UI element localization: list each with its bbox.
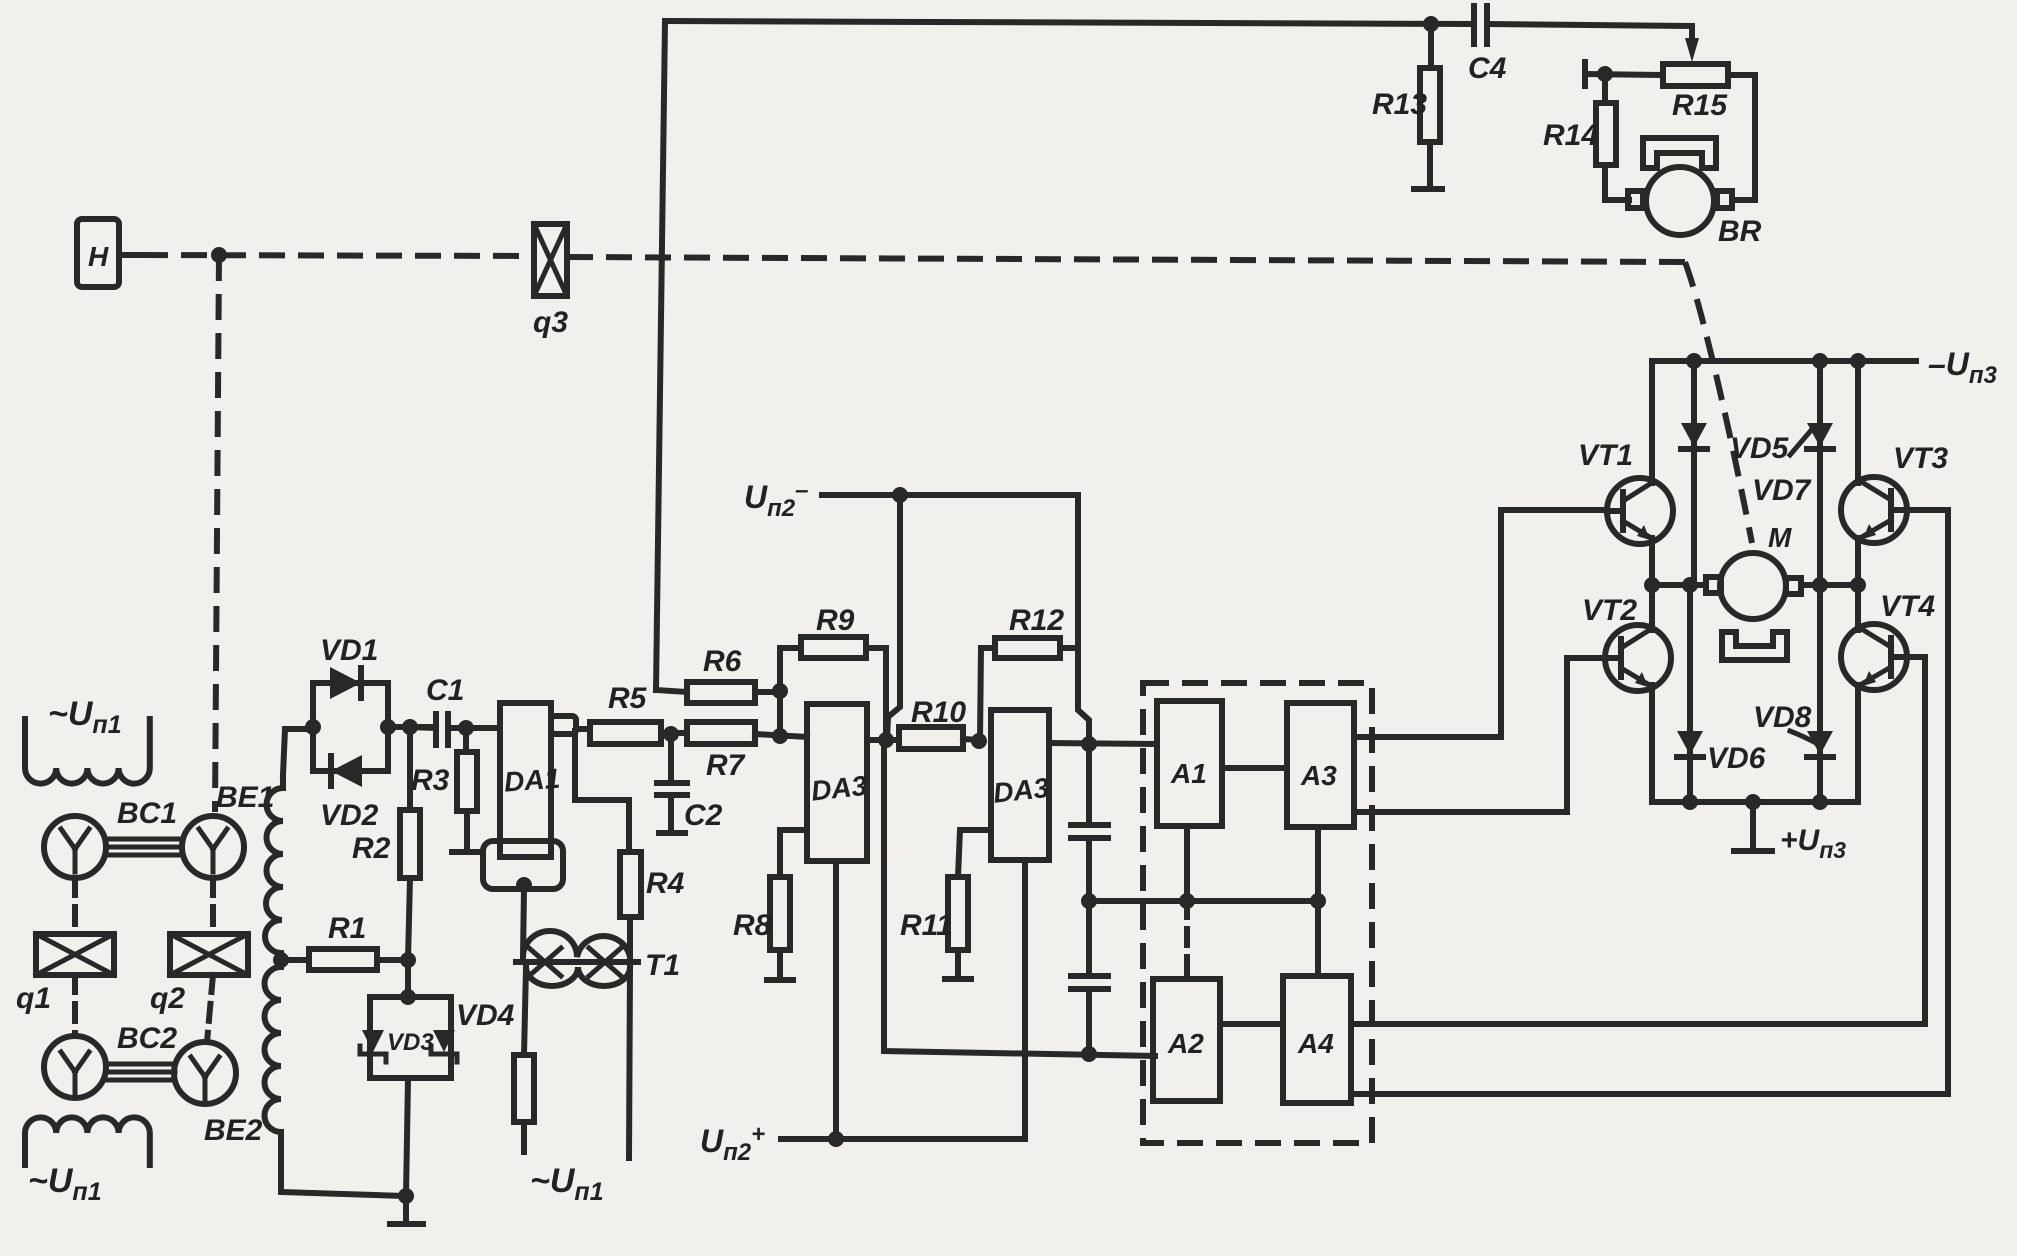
svg-text:VD2: VD2 [320,799,379,832]
wire VD box to ground line [406,1078,408,1196]
svg-text:C4: C4 [1468,52,1507,85]
node DA3 output [1081,736,1097,752]
node R3 tap [458,720,474,736]
wire long vertical from top bus down to R6 [656,21,665,690]
capacitor C4 [1468,6,1507,85]
op-amp DA1 lower block [483,841,563,889]
svg-text:DA1: DA1 [503,763,561,798]
svg-text:C2: C2 [684,799,723,832]
wire DA1 output branch to R4 [575,731,629,852]
op-amp DA2 [807,704,869,861]
winding BE1 rotor coil [265,729,310,962]
switch q3 [533,224,568,339]
wire T1 secondary right lead [629,967,630,1158]
svg-text:H: H [88,241,109,272]
svg-text:VT2: VT2 [1582,594,1637,627]
wire A3 output 1 to VT1 base [1354,510,1607,737]
zener diodes VD3 VD4 box [360,997,515,1078]
capacitor C (lower) in correction chain [1071,901,1108,1054]
svg-text:C1: C1 [426,674,464,707]
svg-text:A1: A1 [1170,758,1207,789]
svg-text:R14: R14 [1543,119,1598,152]
wire A1 to A3 [1222,765,1287,771]
transformer T1 [516,931,680,986]
wire Un2- to DA2 supply pin [887,495,900,740]
wire C4 to R15 corner with arrow [1489,24,1699,62]
wire A4 output 1 to VT4 base [1351,657,1925,1024]
svg-text:DA3: DA3 [810,770,869,807]
node junction R14/R15 [1597,66,1613,82]
svg-text:VD4: VD4 [456,999,515,1032]
wire A2 to A4 [1220,1021,1283,1027]
block A2 [1153,979,1220,1101]
mechanical link BC1-BE1 [106,839,182,855]
svg-text:VD6: VD6 [1707,742,1766,775]
wire R15 right to BR right brush [1728,75,1755,200]
wire R6 node to input node [777,648,783,736]
wire motor left line [1652,582,1706,588]
resistor R5 [590,682,672,744]
wire left rail [1649,361,1655,802]
op-amp DA3 [991,710,1051,860]
mechanical link BC2-BE2 [106,1064,175,1080]
resistor R4 [620,852,685,957]
node right rail top [1850,353,1866,369]
svg-text:R11: R11 [900,909,953,942]
node correction mid [1081,893,1097,909]
ground +Un3 [1734,802,1846,863]
transistor VT1 [1578,439,1673,544]
ground [390,1196,423,1224]
node DA3 input [971,733,987,749]
wire motor right line [1801,582,1858,588]
svg-text:VD7: VD7 [1752,474,1812,507]
wire R1 node down to VD3 box [405,960,411,997]
wire H-bridge bottom bus [1652,799,1858,805]
node VD5/VD6 mid [1682,577,1698,593]
resistor R2 [352,727,420,960]
wire dashed from q3 to motor coupling [567,257,1752,543]
wire A1 bottom pin [1184,826,1190,901]
svg-text:R3: R3 [411,764,450,797]
wire A4 output 2 to VT3 base [1351,510,1948,1094]
svg-text:VT3: VT3 [1893,442,1948,475]
node Un2+ [828,1131,844,1147]
node ground [398,1188,414,1204]
node DA1 lower block output [516,877,532,893]
resistor R8 [733,830,807,980]
svg-text:R9: R9 [816,604,855,637]
resistor R9 [780,604,886,740]
diode VD5 [1681,361,1790,585]
block A1 [1157,701,1222,826]
wire R14 to BR left brush [1605,197,1629,203]
node DA2 input [772,728,788,744]
svg-text:A3: A3 [1300,760,1337,791]
wire H-bridge top bus [1652,358,1916,364]
wire T1 secondary left lead with limiter resistor [514,967,534,1152]
wire dashed vertical to BE1 [215,255,219,812]
node R1 right [400,952,416,968]
capacitor C2 [657,734,723,833]
node junction at R13 tap [1423,16,1439,32]
node R2 tap [402,719,418,735]
wire Un2- corner to R12 [1075,495,1081,648]
svg-text:q1: q1 [16,982,51,1015]
svg-text:VD8: VD8 [1753,701,1812,734]
supply rail Un2- [744,477,1078,522]
wire DA1 output with stub [551,716,590,734]
switch q2 [150,934,248,1015]
svg-text:A2: A2 [1167,1028,1204,1059]
node VD5 top [1686,353,1702,369]
wire BE1 to q2 dashed [210,878,216,934]
wire Un2- jog to output node [1078,648,1089,744]
wire A1 pin to A2 dashed [1184,901,1190,979]
transistor VT3 [1841,442,1948,543]
node A1 pin [1179,893,1195,909]
wire q1 to BC2 dashed [72,975,78,1036]
svg-text:BE2: BE2 [204,1114,263,1147]
logic unit dashed box [1143,683,1372,1143]
svg-text:R4: R4 [646,867,685,900]
svg-text:VT1: VT1 [1578,439,1633,472]
selsyn BC2 [44,1022,177,1098]
node R1 left [273,952,289,968]
node junction on dashed link [211,247,227,263]
diode VD7 [1752,361,1833,585]
node DA2 output [878,732,894,748]
node A3 pin [1310,893,1326,909]
terminal tick left of R15 [1585,62,1663,86]
wire DA3 output to A1 [1049,743,1157,744]
wire A3 output 2 to VT2 base [1354,658,1605,812]
op-amp DA1 [500,703,561,857]
diode VD6 [1677,585,1766,802]
resistor R15 (potentiometer) [1663,64,1728,122]
diode VD1 [313,634,388,699]
selsyn BE1 [182,781,274,878]
diode VD2 [313,755,388,832]
svg-text:M: M [1768,522,1792,553]
block A3 [1287,703,1354,827]
svg-text:R13: R13 [1372,88,1427,121]
node VD7/VD8 mid [1812,577,1828,593]
capacitor C (upper) in correction chain [1071,744,1108,901]
wire q2 to BE2 dashed [207,975,213,1042]
svg-text:A4: A4 [1297,1028,1334,1059]
transistor VT2 [1582,594,1671,691]
svg-text:BC1: BC1 [117,797,177,830]
node VD box top [400,989,416,1005]
resistor R13 [1372,24,1442,189]
svg-text:VD1: VD1 [320,634,378,667]
svg-text:R6: R6 [703,645,742,678]
winding BE2 rotor coil [265,962,282,1192]
wire DA2 bottom pin to Un2+ rail [833,861,839,1139]
wire DA2 output to R10 [867,737,899,743]
node left rail mid [1644,577,1660,593]
resistor R1 [281,912,408,970]
node ground tap [1745,794,1761,810]
svg-text:R5: R5 [608,682,648,715]
svg-text:BR: BR [1718,215,1762,248]
resistor R14 [1543,74,1616,200]
node Un2- tap [892,487,908,503]
selsyn BE2 [174,1042,263,1147]
svg-text:R10: R10 [911,696,966,729]
resistor R10 [899,696,980,749]
svg-text:VD5: VD5 [1730,432,1790,465]
svg-text:DA3: DA3 [992,772,1051,809]
resistor R6 [656,645,780,703]
wire BC1 to q1 dashed [72,878,78,934]
resistor R12 [980,604,1078,740]
block A4 [1283,976,1351,1103]
wire dashed from H to q3 [119,255,534,256]
wire A3 bottom pin to A4 [1315,827,1321,976]
svg-text:R15: R15 [1672,89,1728,122]
capacitor C1 [410,674,500,745]
resistor R11 [900,830,991,979]
wire DA1 lower block to T1 [523,889,524,957]
tachogenerator BR [1628,138,1762,248]
svg-text:R7: R7 [706,749,746,782]
svg-text:q3: q3 [533,306,568,339]
svg-text:VD3: VD3 [387,1029,434,1056]
motor M [1706,522,1801,660]
node VD6 bottom [1682,794,1698,810]
supply label ~Un1 bottom left [25,1117,150,1206]
node VD7 top [1812,353,1828,369]
sensor H box [77,219,119,287]
node VD8 bottom [1812,794,1828,810]
svg-text:BC2: BC2 [117,1022,177,1055]
wire mid node to A1/A3 pins [1089,898,1318,904]
wire DA3 bottom pin to Un2+ rail [781,860,1025,1139]
switch q1 [16,934,114,1015]
svg-text:R12: R12 [1009,604,1064,637]
transistor VT4 [1841,590,1935,690]
svg-text:q2: q2 [150,982,185,1015]
node right rail mid [1850,577,1866,593]
svg-text:R2: R2 [352,832,391,865]
node bridge right [380,719,396,735]
resistor R3 [411,728,481,852]
resistor R7 [671,722,807,782]
svg-text:VT4: VT4 [1880,590,1935,623]
supply label ~Un1 top left [25,695,150,784]
selsyn BC1 [44,797,177,878]
node bridge left [305,719,321,735]
svg-text:T1: T1 [645,949,680,982]
wire VD1/VD2 bridge sides [313,683,430,771]
node R6/R9 [772,683,788,699]
svg-text:R8: R8 [733,909,772,942]
svg-text:R1: R1 [328,912,366,945]
wire right rail [1855,361,1861,802]
node R5 right / C2 tap [663,726,679,742]
wire DA2 output down to A2 input line [884,740,1155,1056]
wire top bus from long vertical to C4 [665,21,1472,24]
wire bottom return [281,1192,406,1196]
diode VD8 [1753,585,1833,802]
node A2 line join [1081,1046,1097,1062]
